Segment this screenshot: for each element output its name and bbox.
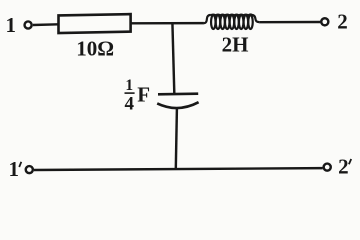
svg-text:4: 4 bbox=[125, 93, 135, 114]
node 1' prime tick bbox=[19, 162, 21, 167]
wire junction down to capacitor bbox=[172, 23, 174, 94]
terminal 2 bbox=[321, 18, 328, 25]
node 2' prime tick bbox=[349, 159, 351, 164]
terminal 1' bbox=[26, 166, 33, 173]
wire inductor to terminal 2 bbox=[259, 21, 320, 24]
wire terminal1 to resistor bbox=[33, 23, 59, 26]
svg-text:F: F bbox=[137, 83, 150, 107]
wire capacitor to bottom rail bbox=[176, 109, 177, 169]
bottom rail wire 1' to 2' bbox=[34, 168, 323, 170]
svg-text:2: 2 bbox=[337, 10, 348, 34]
inductor L (2H) coil bbox=[204, 15, 260, 30]
capacitor C curved plate bbox=[157, 102, 198, 108]
terminal 2' bbox=[324, 164, 331, 171]
svg-text:1: 1 bbox=[6, 13, 17, 37]
wire resistor to inductor through node junction bbox=[131, 22, 204, 25]
svg-text:10Ω: 10Ω bbox=[76, 36, 114, 60]
svg-text:1: 1 bbox=[125, 77, 133, 94]
fraction bar bbox=[125, 92, 135, 94]
capacitor C (1/4 F) top plate bbox=[158, 92, 198, 95]
terminal 1 bbox=[25, 21, 32, 28]
svg-text:2H: 2H bbox=[222, 33, 249, 57]
svg-text:2: 2 bbox=[338, 155, 349, 179]
resistor R (10 ohm) body bbox=[59, 14, 131, 33]
svg-text:1: 1 bbox=[8, 157, 19, 181]
